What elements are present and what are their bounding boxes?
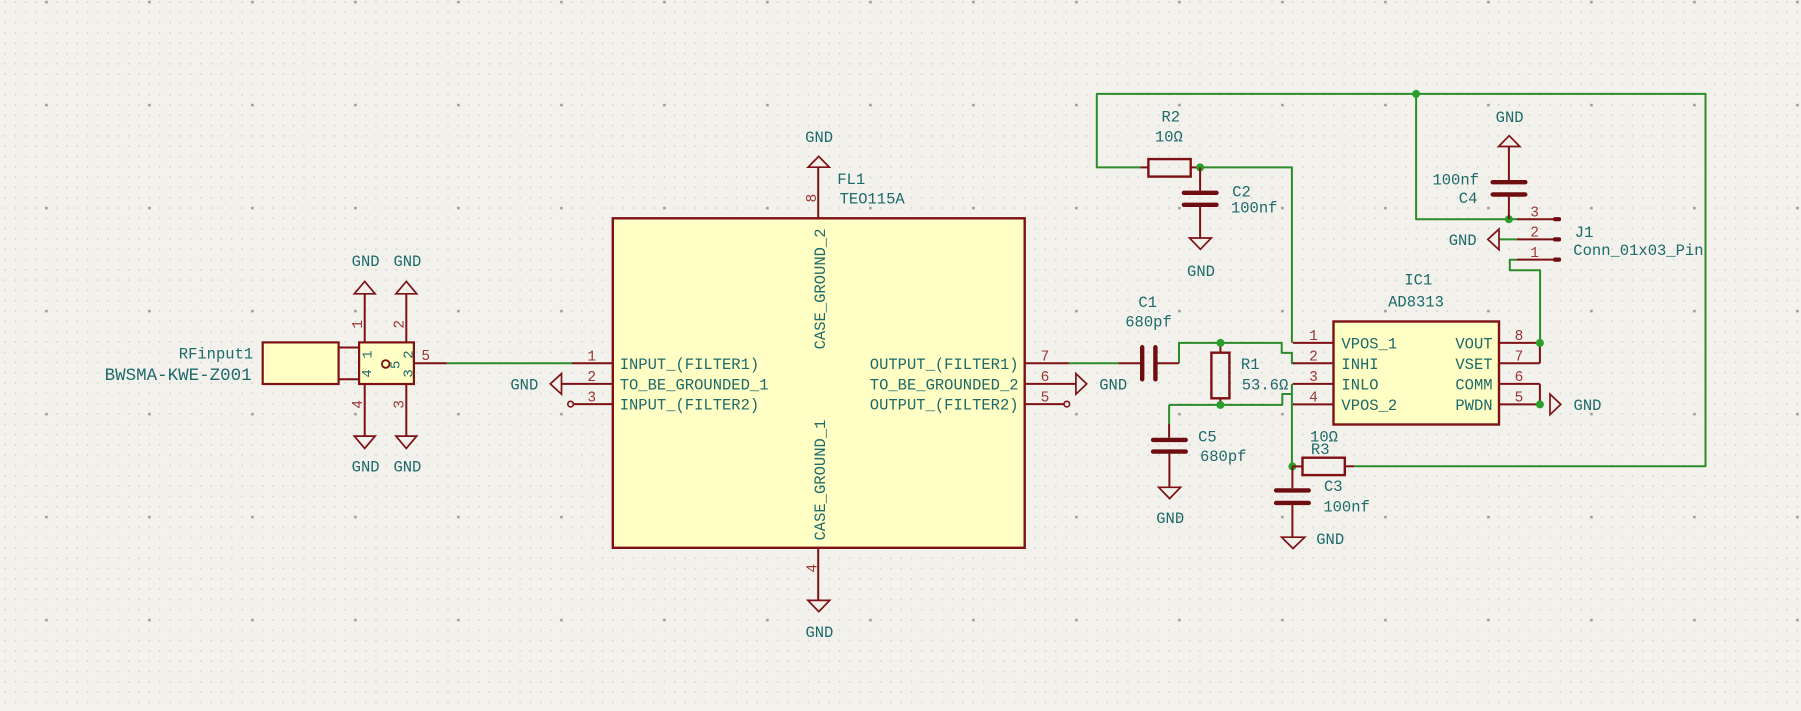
svg-text:GND: GND xyxy=(1574,397,1602,415)
svg-text:AD8313: AD8313 xyxy=(1388,294,1444,312)
svg-text:VPOS_1: VPOS_1 xyxy=(1341,335,1397,353)
svg-text:3: 3 xyxy=(1309,370,1318,386)
svg-text:GND: GND xyxy=(510,377,538,395)
svg-text:TO_BE_GROUNDED_2: TO_BE_GROUNDED_2 xyxy=(870,376,1019,394)
svg-text:7: 7 xyxy=(1041,350,1050,366)
svg-text:C4: C4 xyxy=(1459,190,1478,208)
svg-text:10Ω: 10Ω xyxy=(1155,128,1183,146)
svg-text:R3: R3 xyxy=(1311,441,1330,459)
svg-text:FL1: FL1 xyxy=(837,171,865,189)
svg-text:C5: C5 xyxy=(1198,429,1217,447)
svg-text:TO_BE_GROUNDED_1: TO_BE_GROUNDED_1 xyxy=(620,376,769,394)
svg-text:C1: C1 xyxy=(1138,294,1157,312)
svg-text:CASE_GROUND_2: CASE_GROUND_2 xyxy=(812,228,830,349)
svg-text:GND: GND xyxy=(352,458,380,476)
svg-text:INPUT_(FILTER2): INPUT_(FILTER2) xyxy=(620,397,760,415)
svg-text:PWDN: PWDN xyxy=(1455,397,1492,415)
svg-text:INHI: INHI xyxy=(1341,356,1378,374)
svg-text:2: 2 xyxy=(393,320,409,329)
svg-text:1: 1 xyxy=(1309,329,1318,345)
svg-text:OUTPUT_(FILTER2): OUTPUT_(FILTER2) xyxy=(870,397,1019,415)
svg-text:1: 1 xyxy=(1530,246,1539,262)
svg-text:IC1: IC1 xyxy=(1404,271,1432,289)
svg-text:OUTPUT_(FILTER1): OUTPUT_(FILTER1) xyxy=(870,356,1019,374)
svg-text:GND: GND xyxy=(1156,510,1184,528)
svg-text:GND: GND xyxy=(352,253,380,271)
svg-text:3: 3 xyxy=(393,400,409,409)
svg-text:GND: GND xyxy=(393,458,421,476)
svg-text:GND: GND xyxy=(1316,531,1344,549)
svg-text:GND: GND xyxy=(1187,263,1215,281)
svg-text:GND: GND xyxy=(1449,232,1477,250)
svg-text:GND: GND xyxy=(393,253,421,271)
svg-text:53.6Ω: 53.6Ω xyxy=(1242,377,1289,395)
svg-text:8: 8 xyxy=(1515,329,1524,345)
svg-text:J1: J1 xyxy=(1575,224,1594,242)
svg-text:100nf: 100nf xyxy=(1432,172,1479,190)
svg-text:5: 5 xyxy=(389,361,405,369)
svg-text:4: 4 xyxy=(351,400,367,409)
svg-text:BWSMA-KWE-Z001: BWSMA-KWE-Z001 xyxy=(105,366,252,386)
svg-text:3: 3 xyxy=(587,390,596,406)
svg-text:1: 1 xyxy=(361,350,377,358)
svg-text:680pf: 680pf xyxy=(1200,448,1247,466)
svg-text:VPOS_2: VPOS_2 xyxy=(1341,397,1397,415)
svg-text:2: 2 xyxy=(587,370,596,386)
svg-text:6: 6 xyxy=(1515,370,1524,386)
svg-text:5: 5 xyxy=(1515,391,1524,407)
svg-text:4: 4 xyxy=(806,564,822,573)
svg-text:1: 1 xyxy=(587,350,596,366)
svg-text:VSET: VSET xyxy=(1455,356,1492,374)
svg-text:7: 7 xyxy=(1515,350,1524,366)
svg-text:4: 4 xyxy=(1309,391,1318,407)
svg-text:3: 3 xyxy=(1530,206,1539,222)
svg-text:4: 4 xyxy=(360,369,376,377)
svg-text:COMM: COMM xyxy=(1455,376,1492,394)
svg-text:TEO115A: TEO115A xyxy=(840,190,906,208)
svg-text:100nf: 100nf xyxy=(1231,199,1278,217)
svg-text:680pf: 680pf xyxy=(1125,314,1172,332)
svg-text:8: 8 xyxy=(805,194,821,203)
svg-text:RFinput1: RFinput1 xyxy=(179,345,253,363)
svg-text:3: 3 xyxy=(402,369,418,377)
svg-text:100nf: 100nf xyxy=(1323,499,1370,517)
svg-text:6: 6 xyxy=(1041,370,1050,386)
svg-text:INLO: INLO xyxy=(1341,376,1378,394)
svg-text:R2: R2 xyxy=(1161,109,1180,127)
svg-text:GND: GND xyxy=(805,624,833,642)
svg-text:VOUT: VOUT xyxy=(1455,335,1492,353)
svg-text:C3: C3 xyxy=(1324,478,1343,496)
svg-text:INPUT_(FILTER1): INPUT_(FILTER1) xyxy=(620,356,760,374)
svg-text:2: 2 xyxy=(1309,350,1318,366)
svg-text:5: 5 xyxy=(421,349,430,365)
svg-text:GND: GND xyxy=(805,129,833,147)
svg-text:2: 2 xyxy=(1530,226,1539,242)
svg-text:R1: R1 xyxy=(1241,356,1260,374)
svg-text:1: 1 xyxy=(351,320,367,329)
svg-text:2: 2 xyxy=(402,350,418,358)
svg-text:5: 5 xyxy=(1041,390,1050,406)
svg-text:GND: GND xyxy=(1496,109,1524,127)
svg-text:GND: GND xyxy=(1099,377,1127,395)
svg-text:CASE_GROUND_1: CASE_GROUND_1 xyxy=(812,420,830,541)
svg-text:Conn_01x03_Pin: Conn_01x03_Pin xyxy=(1573,242,1703,260)
